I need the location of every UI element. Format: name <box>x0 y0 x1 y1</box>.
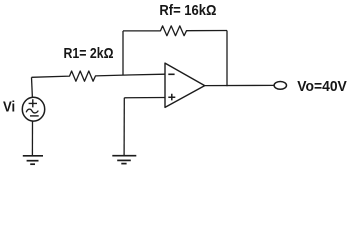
wire: input horizontal (Vi corner to op-amp inverting input, includes R1 zigzag) <box>32 71 165 81</box>
output terminal circle <box>274 82 286 90</box>
Vi sine mark <box>26 109 38 113</box>
op-amp plus pin mark <box>168 94 175 101</box>
wire: non-inverting to ground vertical <box>123 98 125 155</box>
op-amp minus pin mark <box>168 73 174 75</box>
wire: non-inverting input horizontal <box>124 97 165 99</box>
source Vi circle <box>22 97 44 121</box>
ground (under op-amp + input) <box>112 156 136 164</box>
svg-text:R1= 2kΩ: R1= 2kΩ <box>64 45 114 62</box>
wire: feedback top horizontal with resistor Rf zigzag <box>123 26 227 36</box>
svg-text:Rf= 16kΩ: Rf= 16kΩ <box>159 2 216 19</box>
Vi minus mark <box>30 115 39 117</box>
wire: Vi top vertical <box>31 77 34 97</box>
wire: feedback left vertical <box>122 31 124 75</box>
svg-text:Vi: Vi <box>3 99 15 116</box>
wire: output horizontal <box>205 84 274 86</box>
ground (under Vi) <box>23 156 43 164</box>
op-amp U1 triangle <box>165 63 205 107</box>
Vi plus mark <box>29 99 37 107</box>
wire: feedback right vertical <box>226 31 228 87</box>
wire: Vi bottom vertical <box>31 121 33 155</box>
svg-text:Vo=40V: Vo=40V <box>297 78 347 95</box>
